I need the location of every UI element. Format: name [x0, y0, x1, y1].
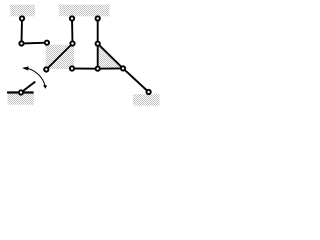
triangle hatch T (rigid triangle fill)	[98, 44, 123, 69]
node P (pivot)	[19, 90, 23, 94]
rotation arc arrow	[24, 68, 45, 87]
node T3	[121, 66, 125, 70]
node C	[45, 41, 49, 45]
node J	[146, 90, 150, 94]
rod I-T2 (horizontal link to triangle)	[72, 68, 98, 70]
node G	[96, 42, 100, 46]
rod F-G (middle-right vertical bar)	[97, 19, 99, 44]
rod A-B (left vertical bar)	[21, 19, 24, 44]
square hatch R (middle checkered square)	[46, 45, 74, 69]
node B	[19, 41, 23, 45]
rod P-tip (rotating bar on pivot)	[21, 82, 35, 93]
rod B-C (left horizontal bar)	[22, 42, 47, 45]
node A	[20, 16, 24, 20]
triangle edge G-T2 (vertical leg)	[97, 44, 99, 69]
node H	[44, 67, 48, 71]
rod H-E (square diagonal brace)	[46, 44, 72, 70]
rod T3-J (diagonal bar to floor joint)	[123, 68, 149, 92]
wall hatch W2 (top-middle ceiling bar)	[59, 5, 109, 17]
node D	[70, 16, 74, 20]
wall hatch W1 (top-left ceiling block)	[10, 5, 35, 17]
triangle edge T2-T3 (bottom leg)	[98, 67, 123, 69]
rod D-E (middle-left vertical bar)	[71, 19, 74, 44]
node T2	[96, 67, 100, 71]
arrowhead left (upper end of arc)	[22, 66, 29, 70]
ground line (bottom-left pivot base)	[7, 91, 33, 93]
arrowhead bottom (lower end of arc)	[43, 85, 47, 89]
node E	[70, 41, 74, 45]
node I	[70, 66, 74, 70]
wall hatch W3 (bottom-right floor block)	[133, 94, 160, 105]
floor hatch W4 (bottom-left ground block)	[8, 94, 34, 105]
node F	[96, 16, 100, 20]
triangle edge G-T3 (hypotenuse)	[98, 44, 123, 69]
